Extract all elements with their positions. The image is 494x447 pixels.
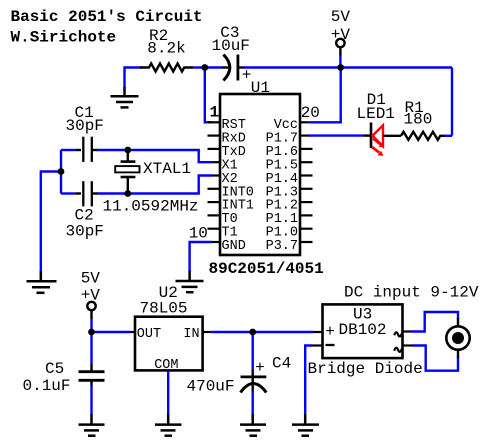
node C1-C2 ground junction	[58, 168, 65, 175]
svg-text:Bridge Diode: Bridge Diode	[308, 360, 423, 378]
svg-text:U1: U1	[251, 79, 270, 97]
wire C1 right to X1	[97, 150, 212, 162]
capacitor C1	[66, 104, 104, 162]
capacitor C4	[187, 332, 292, 415]
svg-text:COM: COM	[154, 358, 178, 373]
ground left of crystal	[27, 271, 57, 293]
capacitor C3	[212, 24, 252, 85]
wire C3 to node B	[244, 66, 341, 68]
regulator U2 78L05	[131, 284, 212, 373]
ground below R2 left	[111, 87, 139, 107]
svg-text:GND: GND	[222, 239, 246, 254]
svg-text:8.2k: 8.2k	[147, 39, 185, 57]
power +V 5V bottom	[81, 270, 101, 333]
power +V 5V top	[331, 8, 351, 67]
svg-text:C4: C4	[272, 355, 291, 373]
svg-text:0.1uF: 0.1uF	[23, 377, 71, 395]
svg-text:+V: +V	[331, 26, 351, 44]
svg-text:89C2051/4051: 89C2051/4051	[209, 260, 324, 278]
svg-text:W.Sirichote: W.Sirichote	[11, 29, 117, 47]
node XTAL1 bottom junction	[124, 190, 131, 197]
right pin stubs	[300, 122, 313, 242]
svg-text:78L05: 78L05	[140, 299, 188, 317]
svg-text:20: 20	[301, 104, 320, 122]
wire node A to C3	[205, 66, 223, 68]
svg-text:11.0592MHz: 11.0592MHz	[103, 197, 199, 215]
wire junction to left ground	[41, 172, 61, 273]
svg-text:30pF: 30pF	[66, 223, 104, 241]
wire GND pin to ground	[190, 242, 212, 272]
svg-text:1: 1	[210, 104, 220, 122]
bridge rectifier U3 DB102	[308, 284, 479, 378]
svg-text:IN: IN	[183, 327, 199, 342]
svg-text:30pF: 30pF	[66, 117, 104, 135]
wire C2 left to vertical	[61, 192, 76, 194]
svg-text:DC input 9-12V: DC input 9-12V	[344, 284, 479, 302]
resistor R1	[401, 132, 445, 140]
title	[11, 8, 203, 47]
capacitor C5	[23, 332, 105, 415]
svg-text:OUT: OUT	[137, 327, 161, 342]
ground below C5	[79, 414, 105, 436]
capacitor C2	[66, 181, 104, 240]
node D junction C4	[249, 329, 256, 336]
wire top-left to R2	[125, 68, 143, 89]
svg-text:P3.7: P3.7	[266, 239, 298, 254]
wire node C to OUT	[92, 331, 131, 333]
node C junction 5V/C5/OUT	[88, 329, 95, 336]
wire P1.7 to LED	[308, 134, 363, 136]
svg-text:LED1: LED1	[357, 105, 395, 123]
ground below COM	[155, 414, 182, 436]
wire node B to top-right corner	[341, 66, 452, 68]
ground below U3 minus	[292, 414, 319, 436]
svg-text:470uF: 470uF	[187, 377, 235, 395]
svg-text:DB102: DB102	[339, 321, 387, 339]
svg-text:C5: C5	[45, 360, 64, 378]
svg-text:10uF: 10uF	[212, 37, 250, 55]
DC jack connector	[446, 318, 469, 358]
wire left vertical C1-C2	[60, 150, 62, 194]
svg-text:XTAL1: XTAL1	[143, 160, 191, 178]
svg-text:10: 10	[189, 225, 208, 243]
node XTAL1 top junction	[124, 147, 131, 154]
wire C2 right to X2	[97, 176, 212, 194]
ground below GND pin	[176, 271, 204, 292]
svg-text:5V: 5V	[331, 8, 351, 26]
node B junction +V rail	[337, 64, 344, 71]
svg-text:180: 180	[404, 111, 433, 129]
ground below C4	[240, 414, 266, 436]
right pin names	[266, 118, 298, 254]
wire R2 to node A	[194, 66, 207, 68]
wire IN to node D and U3	[211, 331, 313, 333]
wire right vertical down to R1	[451, 68, 453, 136]
wire U3 minus to ground	[305, 346, 312, 416]
wire node A down to RST	[205, 68, 212, 123]
wire node B down to Vcc	[309, 68, 341, 123]
wire U3 AC bottom to jack	[413, 346, 459, 371]
svg-text:+: +	[255, 359, 265, 377]
wire R1 to right vertical	[445, 135, 453, 137]
node A junction R2/C3/RST	[201, 64, 208, 71]
svg-text:+: +	[325, 323, 335, 341]
svg-text:Basic 2051's Circuit: Basic 2051's Circuit	[11, 8, 203, 26]
IC U1 89C2051/4051 body	[220, 94, 300, 255]
wire U3 AC top to jack	[412, 312, 458, 332]
wire COM to ground	[167, 370, 169, 415]
left pin stubs	[208, 122, 221, 242]
wire C1 left to vertical	[61, 149, 76, 151]
svg-text:5V: 5V	[81, 270, 101, 288]
resistor R2	[140, 64, 193, 72]
crystal XTAL1	[103, 150, 199, 215]
left pin names	[222, 118, 254, 254]
LED D1	[357, 91, 402, 156]
